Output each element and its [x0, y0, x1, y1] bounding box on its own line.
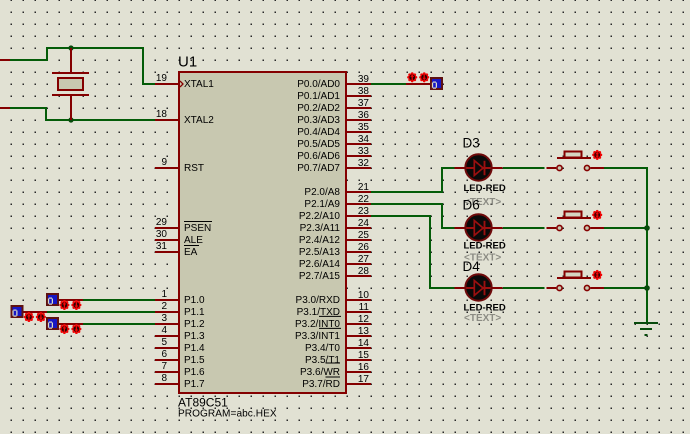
svg-text:7: 7	[161, 361, 167, 372]
svg-text:6: 6	[161, 349, 167, 360]
svg-text:24: 24	[358, 218, 370, 229]
svg-text:P0.4/AD4: P0.4/AD4	[297, 127, 340, 138]
svg-text:36: 36	[358, 110, 370, 121]
svg-text:P1.4: P1.4	[184, 343, 205, 354]
svg-text:XTAL2: XTAL2	[184, 115, 214, 126]
svg-text:P3.4/T0: P3.4/T0	[305, 343, 340, 354]
svg-text:4: 4	[161, 325, 167, 336]
svg-text:30: 30	[156, 229, 168, 240]
svg-text:P3.3/INT1: P3.3/INT1	[295, 331, 340, 342]
svg-text:P1.0: P1.0	[184, 295, 205, 306]
svg-text:9: 9	[161, 157, 167, 168]
svg-text:U1: U1	[178, 54, 197, 71]
svg-text:15: 15	[358, 350, 370, 361]
svg-text:P0.7/AD7: P0.7/AD7	[297, 163, 340, 174]
svg-text:5: 5	[161, 337, 167, 348]
svg-text:14: 14	[358, 338, 370, 349]
svg-text:26: 26	[358, 242, 370, 253]
svg-text:P1.5: P1.5	[184, 355, 205, 366]
svg-text:P1.1: P1.1	[184, 307, 205, 318]
svg-text:16: 16	[358, 362, 370, 373]
svg-text:19: 19	[156, 73, 168, 84]
svg-text:P3.7/RD: P3.7/RD	[302, 379, 340, 390]
svg-text:10: 10	[358, 290, 370, 301]
svg-text:P0.1/AD1: P0.1/AD1	[297, 91, 340, 102]
svg-text:D4: D4	[463, 259, 481, 274]
svg-text:P1.6: P1.6	[184, 367, 205, 378]
svg-text:PSEN: PSEN	[184, 223, 211, 234]
svg-text:2: 2	[161, 301, 167, 312]
svg-text:PROGRAM=abc.HEX: PROGRAM=abc.HEX	[178, 409, 277, 420]
svg-text:EA: EA	[184, 247, 198, 258]
svg-text:P1.7: P1.7	[184, 379, 205, 390]
svg-text:P2.0/A8: P2.0/A8	[304, 187, 340, 198]
svg-text:25: 25	[358, 230, 370, 241]
svg-text:LED-RED: LED-RED	[464, 183, 506, 194]
svg-text:32: 32	[358, 158, 370, 169]
svg-text:P2.3/A11: P2.3/A11	[300, 223, 341, 234]
svg-text:LED-RED: LED-RED	[464, 303, 506, 314]
svg-text:P2.5/A13: P2.5/A13	[299, 247, 341, 258]
svg-text:<TEXT>: <TEXT>	[464, 313, 501, 324]
svg-text:D3: D3	[463, 136, 480, 151]
svg-text:13: 13	[358, 326, 370, 337]
svg-text:21: 21	[358, 182, 370, 193]
svg-text:AT89C51: AT89C51	[178, 396, 228, 410]
svg-text:P0.3/AD3: P0.3/AD3	[297, 115, 340, 126]
svg-text:27: 27	[358, 254, 370, 265]
svg-text:37: 37	[358, 98, 370, 109]
svg-text:P2.4/A12: P2.4/A12	[299, 235, 341, 246]
svg-text:38: 38	[358, 86, 370, 97]
svg-text:22: 22	[358, 194, 370, 205]
svg-text:P2.7/A15: P2.7/A15	[299, 271, 341, 282]
svg-text:35: 35	[358, 122, 370, 133]
svg-text:P1.3: P1.3	[184, 331, 205, 342]
svg-text:31: 31	[156, 241, 168, 252]
svg-text:34: 34	[358, 134, 370, 145]
svg-text:28: 28	[358, 266, 370, 277]
svg-text:18: 18	[156, 109, 168, 120]
svg-text:XTAL1: XTAL1	[184, 79, 214, 90]
svg-text:LED-RED: LED-RED	[464, 241, 506, 252]
svg-text:33: 33	[358, 146, 370, 157]
svg-text:P3.6/WR: P3.6/WR	[300, 367, 340, 378]
svg-text:8: 8	[161, 373, 167, 384]
svg-text:P0.6/AD6: P0.6/AD6	[297, 151, 340, 162]
svg-text:P3.5/T1: P3.5/T1	[305, 355, 340, 366]
svg-text:P0.2/AD2: P0.2/AD2	[297, 103, 340, 114]
svg-text:RST: RST	[184, 163, 204, 174]
svg-text:12: 12	[358, 314, 370, 325]
svg-text:39: 39	[358, 74, 370, 85]
svg-text:P2.2/A10: P2.2/A10	[299, 211, 341, 222]
svg-text:ALE: ALE	[184, 235, 203, 246]
svg-text:3: 3	[161, 313, 167, 324]
svg-text:29: 29	[156, 217, 168, 228]
svg-text:P1.2: P1.2	[184, 319, 205, 330]
svg-text:P0.5/AD5: P0.5/AD5	[297, 139, 340, 150]
svg-text:P3.0/RXD: P3.0/RXD	[296, 295, 340, 306]
svg-text:23: 23	[358, 206, 370, 217]
svg-text:P2.6/A14: P2.6/A14	[299, 259, 341, 270]
svg-text:D6: D6	[463, 198, 480, 213]
svg-text:P2.1/A9: P2.1/A9	[304, 199, 340, 210]
svg-text:11: 11	[359, 302, 370, 313]
svg-text:17: 17	[358, 374, 370, 385]
svg-text:P0.0/AD0: P0.0/AD0	[297, 79, 340, 90]
svg-text:1: 1	[161, 289, 167, 300]
